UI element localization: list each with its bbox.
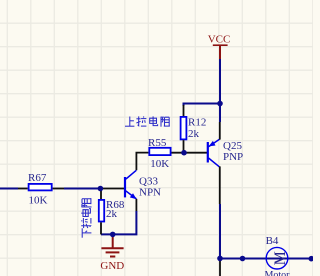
svg-text:2k: 2k — [106, 208, 118, 220]
svg-text:R67: R67 — [28, 172, 47, 184]
pin R67 right — [53, 188, 64, 190]
label pull-down annotation (xia la dian zu, rotated) — [81, 198, 91, 238]
wire Q33 emitter down — [101, 211, 136, 234]
svg-text:Motor: Motor — [265, 270, 291, 276]
pin Q25 emitter vertical — [219, 122, 221, 140]
svg-text:VCC: VCC — [208, 34, 231, 46]
svg-text:2k: 2k — [188, 128, 200, 140]
wire Q25 emitter up to junction — [219, 104, 221, 123]
wire collector down to motor net — [219, 204, 221, 258]
svg-text:GND: GND — [100, 260, 124, 272]
svg-text:R12: R12 — [188, 116, 206, 128]
svg-text:B4: B4 — [266, 235, 279, 247]
wire motor net horizontal — [220, 258, 313, 260]
transistor Q25 PNP — [208, 139, 243, 167]
svg-text:M: M — [272, 251, 289, 265]
wire top horizontal to R12 — [184, 104, 221, 107]
resistor R67 — [28, 172, 52, 207]
pin Q25 collector vertical — [219, 166, 221, 204]
pin R12 top — [183, 105, 185, 117]
pin Q33 base — [100, 188, 124, 190]
wire left input — [0, 188, 18, 190]
ground GND — [100, 234, 124, 271]
junction dot motor net mid — [240, 256, 246, 262]
junction dot ground net — [110, 232, 116, 238]
motor B4 — [265, 235, 291, 276]
svg-text:PNP: PNP — [223, 151, 243, 163]
pin R12 bottom — [183, 140, 185, 153]
label pull-up annotation (shang la dian zu) — [125, 116, 170, 126]
svg-text:NPN: NPN — [139, 186, 161, 198]
wire R67 to junction — [64, 188, 100, 190]
pin Q33 emitter vertical — [135, 199, 137, 211]
pin R55 left + corner down to Q33 collector — [136, 153, 148, 171]
svg-text:10K: 10K — [29, 195, 48, 207]
resistor R12 — [181, 116, 207, 140]
resistor R55 — [148, 137, 171, 170]
transistor Q33 NPN — [125, 170, 161, 199]
svg-text:R55: R55 — [148, 137, 167, 149]
junction dot at VCC branch — [217, 101, 223, 107]
wire VCC vertical — [219, 59, 221, 104]
junction dot at R12 R55 Q25-base node — [181, 150, 187, 156]
power VCC — [208, 34, 231, 60]
pin R68 top — [100, 189, 102, 200]
svg-text:10K: 10K — [150, 158, 169, 170]
pin R68 bottom — [100, 222, 102, 234]
resistor R68 — [99, 199, 125, 222]
junction dot motor net left — [217, 256, 223, 262]
junction dot right edge — [309, 256, 315, 262]
pin below motor-net junction — [219, 261, 221, 276]
junction dot base net — [98, 186, 104, 192]
pin R67 left — [18, 188, 28, 190]
pin Q25 base wire — [172, 152, 208, 154]
